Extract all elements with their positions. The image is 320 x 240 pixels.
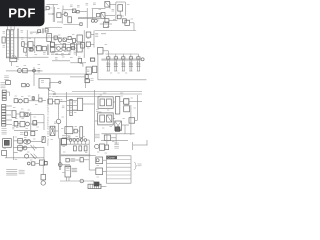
wire — [60, 180, 90, 182]
resistor R27 — [18, 139, 23, 144]
wire — [121, 125, 129, 134]
capacitor C2 — [97, 14, 100, 17]
value label — [61, 54, 64, 56]
wire — [67, 105, 78, 107]
resistor R5 — [123, 19, 127, 23]
bus VCC — [72, 91, 142, 93]
IC U20 — [81, 43, 85, 49]
IC U18 — [61, 139, 66, 145]
wire — [17, 29, 20, 58]
wire — [14, 57, 33, 59]
symbol legend — [27, 162, 35, 165]
capacitor C13 — [136, 57, 140, 71]
net AC-L — [4, 76, 9, 79]
wire — [52, 60, 70, 62]
brace — [134, 162, 137, 170]
value label — [37, 126, 39, 128]
value label — [137, 62, 139, 64]
value label — [16, 127, 18, 129]
value label — [27, 151, 29, 153]
net B+ — [95, 134, 100, 138]
relay K1 — [28, 42, 33, 48]
wire — [95, 30, 137, 32]
wire — [83, 30, 85, 58]
value label — [77, 6, 80, 8]
wire — [37, 147, 44, 160]
IC U5 — [47, 34, 52, 42]
wire — [103, 51, 108, 57]
resistor R9 — [42, 46, 46, 51]
value label — [112, 10, 115, 12]
label — [138, 164, 142, 166]
wire — [34, 74, 86, 77]
transistor Q14 — [25, 154, 29, 158]
resistor R11 — [68, 37, 71, 40]
value label — [3, 46, 6, 48]
wire — [80, 23, 82, 26]
IC U8 — [98, 48, 104, 55]
wire — [53, 126, 59, 131]
transistor Q8 — [19, 99, 23, 103]
transistor Q4 — [29, 48, 33, 51]
connector J4 — [96, 157, 103, 164]
wire — [103, 170, 107, 172]
diode D12 — [31, 154, 37, 159]
wire — [17, 100, 20, 102]
value label — [70, 5, 73, 7]
IC U15 inner — [100, 99, 111, 106]
value label — [74, 101, 76, 103]
wire — [33, 45, 37, 49]
value label — [25, 54, 28, 56]
ground — [94, 182, 99, 186]
wire — [89, 169, 95, 171]
value label — [93, 3, 96, 5]
resistor R36 — [71, 44, 75, 49]
diode D10 — [124, 99, 129, 104]
IC U12 — [48, 99, 53, 104]
value label — [74, 112, 76, 114]
resistor R15 — [23, 69, 28, 73]
wire — [93, 31, 95, 48]
inductor L1 — [32, 96, 34, 101]
wire — [105, 15, 115, 17]
wire — [132, 142, 134, 150]
capacitor C6 — [50, 47, 55, 52]
value label — [129, 62, 131, 64]
wire — [28, 37, 62, 39]
capacitor C25 electrolytic — [65, 166, 71, 177]
value label — [48, 35, 50, 37]
value label — [15, 118, 17, 120]
connector J3 — [2, 105, 6, 127]
value label — [123, 118, 125, 120]
fuse F1 — [6, 81, 11, 85]
wire — [42, 100, 46, 102]
value label — [97, 176, 99, 178]
value label — [41, 81, 44, 83]
resistor R21 — [20, 122, 25, 127]
resistor R17 — [14, 99, 18, 103]
value label — [21, 31, 24, 33]
value label — [85, 152, 87, 154]
wire — [101, 133, 134, 135]
wire — [103, 159, 107, 161]
wire — [133, 144, 148, 146]
wire — [115, 134, 117, 144]
value label — [64, 51, 66, 53]
value label — [43, 53, 46, 55]
wire — [59, 164, 70, 166]
wire — [120, 101, 124, 103]
diode D1 — [72, 9, 75, 13]
wire — [28, 100, 39, 102]
wire — [58, 124, 60, 139]
wire — [6, 155, 8, 157]
transistor Q9 — [24, 113, 29, 117]
wire — [14, 151, 18, 153]
svg-text:PDF: PDF — [8, 6, 36, 21]
wire — [90, 154, 95, 156]
resistor R1 — [46, 7, 49, 10]
wire — [116, 1, 125, 3]
transistor Q1 — [64, 13, 67, 16]
capacitor C26 — [95, 144, 109, 150]
value label — [53, 93, 56, 95]
wire — [58, 37, 60, 40]
wire — [47, 4, 59, 6]
wire — [57, 21, 62, 23]
wire — [67, 139, 71, 141]
wire — [64, 24, 81, 26]
value label — [131, 97, 133, 99]
wire — [61, 14, 68, 16]
node F — [15, 159, 18, 161]
wire — [124, 2, 126, 16]
wire — [56, 44, 76, 46]
resistor R20 — [14, 122, 18, 127]
resistor R3 — [118, 5, 123, 11]
transistor Q7 — [18, 69, 22, 73]
wire — [41, 47, 42, 49]
wire — [31, 123, 38, 125]
relay K2 — [20, 112, 24, 117]
value label — [131, 18, 134, 20]
wire — [45, 9, 47, 11]
resistor R7 — [24, 48, 27, 53]
capacitor C12 — [129, 57, 133, 71]
node D — [90, 79, 93, 81]
capacitor C9 — [106, 57, 110, 71]
wire — [101, 33, 106, 35]
diode D13 — [42, 137, 44, 143]
net CN2 — [12, 126, 14, 129]
bridge BR1 — [115, 121, 122, 131]
value label — [72, 34, 74, 36]
wire — [15, 70, 42, 72]
value label — [127, 4, 130, 6]
value label — [19, 143, 21, 145]
value label — [118, 72, 120, 74]
value label — [105, 152, 107, 154]
value label — [87, 70, 89, 72]
wire — [61, 10, 63, 24]
wire — [10, 58, 17, 62]
IC U15 — [98, 97, 113, 109]
value label — [22, 118, 24, 120]
value label — [49, 96, 51, 98]
wire — [59, 101, 66, 103]
value label — [28, 109, 30, 111]
diode D5 — [67, 48, 70, 51]
value label — [26, 144, 28, 146]
wire — [146, 140, 148, 145]
value label — [63, 146, 65, 148]
wire — [14, 129, 38, 131]
wire — [53, 101, 56, 103]
value label — [20, 151, 22, 153]
resistor R18 — [24, 99, 28, 103]
terminal J1 — [141, 58, 144, 61]
value label — [21, 96, 23, 98]
transistor Q10 — [26, 122, 30, 126]
wire — [52, 96, 100, 98]
value label — [24, 137, 26, 139]
wire — [73, 130, 74, 132]
value label — [86, 4, 89, 6]
diode D11 — [124, 106, 130, 112]
value label — [110, 126, 112, 128]
wire — [33, 74, 35, 86]
value label — [28, 95, 30, 97]
wire — [76, 10, 87, 13]
wire — [113, 101, 115, 103]
wire — [22, 147, 25, 149]
wire — [26, 30, 28, 58]
wire — [14, 140, 31, 142]
wire — [50, 82, 59, 86]
resistor R24 — [74, 129, 77, 133]
wire — [84, 74, 86, 88]
capacitor C22 — [74, 146, 77, 151]
value label — [62, 172, 64, 174]
IC U4 — [50, 42, 54, 47]
value label — [97, 19, 99, 21]
resistor R33 — [84, 139, 87, 145]
wire — [48, 13, 53, 15]
wire — [14, 70, 16, 72]
value label — [114, 62, 116, 64]
wire — [90, 43, 94, 45]
wire — [33, 56, 49, 58]
capacitor C17 — [60, 99, 62, 101]
value label — [87, 38, 89, 40]
wire — [65, 48, 67, 50]
wire — [35, 163, 39, 165]
value label — [26, 128, 28, 130]
wire — [6, 120, 12, 125]
vertical label — [46, 99, 49, 146]
wire — [18, 123, 20, 125]
value label — [70, 57, 73, 59]
wire — [71, 38, 72, 41]
bus drop — [116, 54, 139, 57]
wire — [62, 138, 79, 140]
capacitor C24 — [84, 146, 87, 151]
value label — [107, 26, 110, 28]
value label — [63, 151, 65, 153]
wire — [87, 139, 90, 141]
wire — [115, 2, 117, 20]
wire — [69, 159, 80, 161]
value label — [21, 38, 23, 40]
svg-text:SCHEMATIC DIAGRAM NO 2 PAGE: SCHEMATIC DIAGRAM NO 2 PAGE — [46, 99, 49, 146]
crystal Y1 — [105, 2, 110, 8]
wire — [92, 8, 106, 10]
diode D14 — [63, 44, 66, 48]
value label — [78, 57, 81, 59]
value label — [68, 136, 70, 138]
value label — [57, 8, 59, 10]
wire — [34, 38, 36, 53]
value label — [74, 53, 77, 55]
value label — [61, 128, 63, 130]
wire — [101, 140, 128, 142]
wire — [94, 90, 96, 142]
wire — [83, 103, 95, 105]
wire — [23, 114, 26, 116]
wire — [67, 110, 78, 112]
inductor L2 — [70, 99, 73, 115]
node E — [65, 136, 70, 138]
value label — [13, 107, 15, 109]
wire — [53, 5, 54, 23]
value label — [125, 72, 127, 74]
resistor R25 — [129, 118, 135, 124]
capacitor C7 — [73, 39, 76, 43]
wire — [100, 23, 112, 25]
wire — [43, 115, 45, 130]
transformer T1 secondary — [11, 30, 14, 58]
wire — [47, 45, 48, 56]
value label — [34, 116, 36, 118]
wire — [135, 119, 138, 121]
resistor R34 — [66, 158, 69, 162]
wire — [80, 63, 83, 66]
wire — [109, 2, 111, 9]
wire — [22, 100, 24, 102]
transistor Q16 — [80, 179, 84, 183]
wire — [95, 120, 98, 122]
wire — [98, 79, 147, 81]
diode D8 — [39, 98, 42, 102]
value label — [120, 92, 123, 94]
wire — [30, 112, 32, 135]
wire — [8, 27, 15, 31]
value label — [121, 95, 123, 97]
table header — [106, 156, 117, 160]
capacitor C4 — [2, 37, 5, 43]
capacitor C20 — [2, 151, 7, 156]
value label — [21, 108, 23, 110]
net AC-N — [1, 82, 6, 87]
resistor R4 — [117, 15, 121, 19]
value label — [35, 54, 38, 56]
value label — [110, 72, 112, 74]
value label — [15, 95, 17, 97]
pin labels — [96, 110, 99, 112]
transistor Q11 — [56, 119, 60, 123]
wire — [24, 43, 28, 45]
IC U16 inner — [100, 115, 112, 122]
wire — [77, 130, 80, 132]
value label — [54, 122, 56, 124]
value label — [68, 53, 71, 55]
diode D4 — [63, 38, 66, 41]
wire — [78, 17, 101, 18]
wire — [54, 44, 56, 46]
wire — [130, 105, 132, 135]
value label — [134, 107, 136, 109]
value label — [62, 56, 65, 58]
net WH — [71, 158, 75, 161]
capacitor C14 — [22, 83, 30, 86]
diode D9 — [33, 121, 37, 125]
value label — [87, 47, 89, 49]
connector J2 — [2, 90, 6, 100]
wire — [66, 39, 68, 41]
wire — [42, 165, 44, 174]
capacitor C5 — [42, 28, 43, 33]
resistor R8 — [38, 30, 41, 33]
wire — [60, 143, 66, 145]
node A — [95, 33, 98, 36]
wire — [130, 101, 143, 103]
value label — [33, 138, 35, 140]
capacitor C11 — [121, 57, 125, 71]
value label — [76, 136, 78, 138]
value label — [51, 139, 53, 141]
diode D6 — [38, 69, 41, 72]
wire — [67, 177, 70, 181]
wire — [46, 48, 47, 50]
note text — [6, 170, 17, 175]
node C — [31, 67, 36, 74]
wire — [105, 53, 138, 55]
IC U3 — [45, 29, 48, 33]
value label — [75, 126, 77, 128]
value label — [97, 151, 99, 153]
ground — [12, 55, 19, 60]
IC U13 — [77, 98, 82, 110]
wire — [113, 118, 115, 120]
resistor R30 — [73, 139, 76, 145]
value label — [68, 42, 70, 44]
wire — [76, 43, 78, 56]
IC U9 — [39, 79, 50, 89]
transistor Q3 — [91, 19, 97, 22]
wire — [52, 51, 62, 53]
value label — [38, 64, 41, 66]
value label — [55, 58, 58, 60]
note text 2 — [19, 170, 25, 174]
wire — [76, 40, 78, 42]
transistor Q13 — [23, 145, 36, 151]
value label — [24, 65, 27, 67]
IC U14 — [65, 127, 73, 134]
resistor R28 — [18, 146, 23, 151]
wire — [97, 54, 99, 80]
